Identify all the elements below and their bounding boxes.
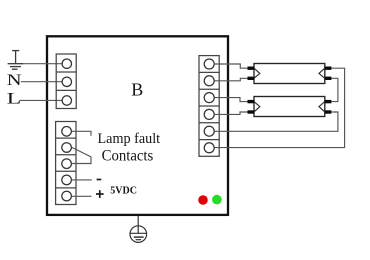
lamp LP1 right filament chevron (319, 68, 325, 78)
mains terminal block TB1 (56, 54, 76, 109)
wire TB3-2 to lamp LP1 lower-left pin (214, 78, 247, 81)
label minus (97, 179, 102, 181)
protective earth symbol (130, 226, 147, 243)
wire TB2-4 (72, 179, 92, 181)
wire TB3-1 to lamp LP1 upper-left pin (214, 64, 247, 68)
lamp LP2 upper-right pin (325, 100, 332, 103)
svg-text:L: L (7, 90, 22, 107)
lamp LP1 upper-right pin (325, 67, 332, 70)
contact arm TB2-2 (changeover) (71, 147, 91, 157)
wire TB3-4 to lamp LP2 lower-left pin (214, 112, 247, 114)
terminal TB3-5 (204, 126, 214, 136)
terminal TB3-3 (204, 93, 214, 103)
earth symbol (mains input) (8, 51, 24, 70)
wire TB3-3 to lamp LP2 upper-left pin (214, 98, 247, 102)
wire TB3-6 to lamp LP1 upper-right pin (214, 68, 344, 147)
terminal TB2-2 (62, 143, 72, 153)
svg-text:N: N (7, 72, 22, 89)
lamp LP2 lower-left pin (248, 110, 255, 113)
lamp LP1 upper-left pin (248, 67, 255, 70)
terminal TB2-3 (62, 159, 72, 169)
lamp LP2 lower-right pin (325, 110, 332, 113)
output terminal block TB3 (199, 56, 219, 157)
controller box B (47, 36, 228, 215)
terminal TB3-1 (204, 59, 214, 69)
wire L to TB1-3 (20, 99, 63, 101)
terminal TB3-6 (204, 143, 214, 153)
svg-text:Contacts: Contacts (102, 148, 154, 165)
terminal TB2-4 (62, 175, 72, 185)
terminal TB1-2 (62, 77, 71, 86)
lamp LP1 tube (254, 64, 325, 84)
svg-text:Lamp fault: Lamp fault (98, 131, 161, 147)
lamp LP1 lower-left pin (248, 77, 255, 80)
lamp LP1 lower-right pin (325, 77, 332, 80)
wire earth to TB1-1 (23, 63, 62, 65)
wire TB2-1 contact stub (72, 131, 92, 136)
lamp LP2 right filament chevron (319, 102, 325, 112)
terminal TB2-5 (62, 191, 72, 201)
lamp fault contacts terminal block TB2 (56, 122, 76, 205)
lamp LP2 left filament chevron (254, 102, 260, 112)
label plus (96, 190, 104, 198)
terminal TB3-4 (204, 109, 214, 119)
terminal TB1-1 (62, 59, 71, 68)
svg-text:5VDC: 5VDC (110, 185, 137, 196)
protective earth stem (137, 216, 139, 234)
terminal TB3-2 (204, 76, 214, 86)
wire lamp LP1 lower-right pin to lamp LP2 upper-right pin (332, 78, 338, 101)
lamp LP2 tube (254, 97, 325, 117)
wire N to TB1-2 (21, 81, 62, 83)
terminal TB2-1 (62, 127, 72, 137)
wire TB2-5 (72, 195, 92, 197)
svg-text:B: B (131, 79, 143, 99)
lamp LP2 upper-left pin (248, 100, 255, 103)
terminal TB1-3 (62, 96, 71, 105)
lamp LP1 left filament chevron (254, 68, 260, 78)
LED red (198, 195, 208, 205)
wire TB3-5 to lamp LP2 lower-right pin (214, 112, 338, 131)
LED green (212, 195, 222, 205)
wire TB2-3 contact stub (72, 157, 92, 164)
